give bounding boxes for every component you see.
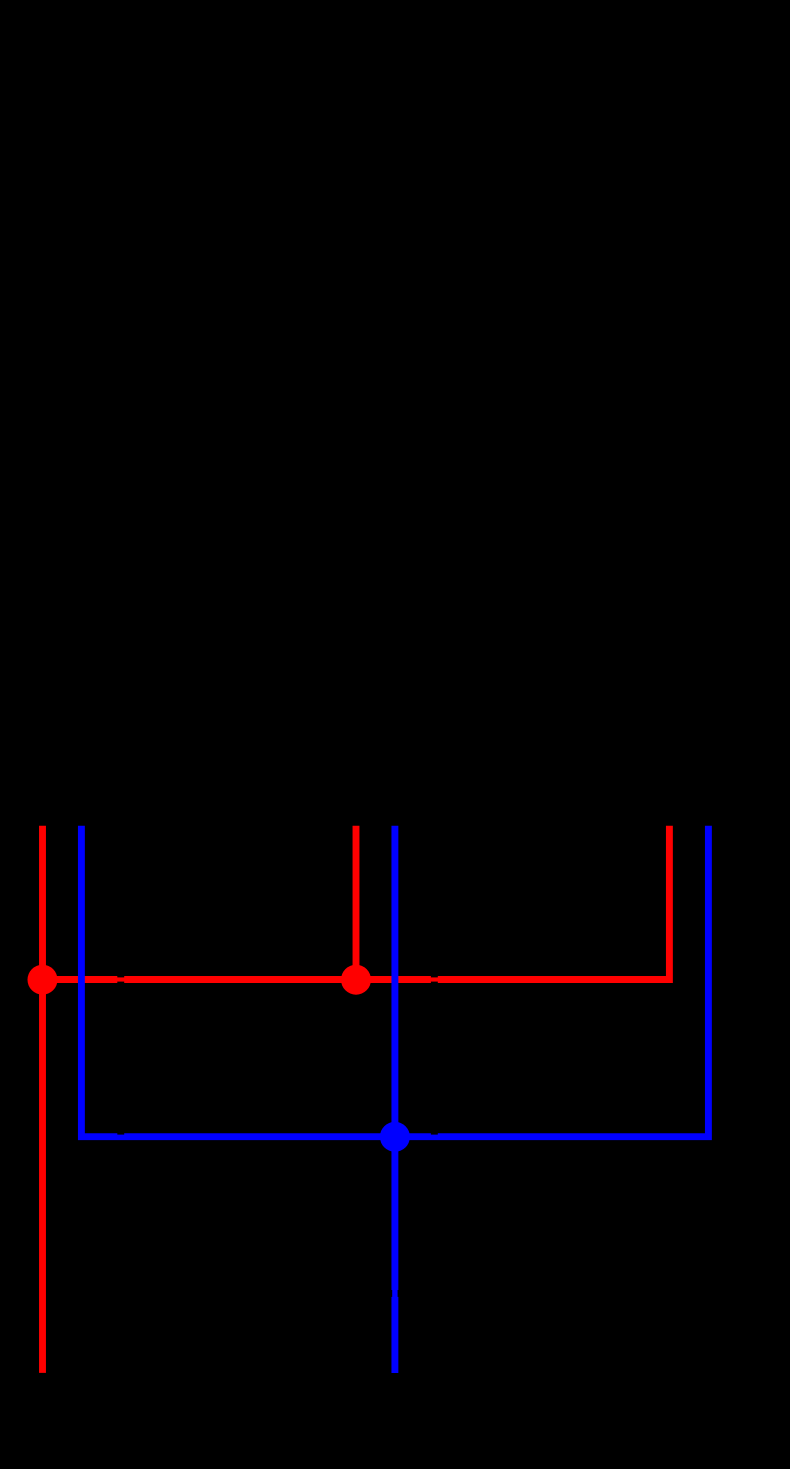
wire black crossover nick on red rail at x=120.8 (top) [117, 975, 124, 977]
wire V+ horizontal rail with stage3 red vertical (corner at x=669.4) [43, 826, 670, 980]
wire red supply drop (x=42.5 down) [39, 980, 46, 1373]
wire black crossover nick on blue drop at y=1293.4 (left) [390, 1290, 392, 1297]
wire ground rail blue: stage1 vertical + horizontal + stage3 vertical [81, 826, 708, 1137]
wire V+ rail red vertical stage2 (x=356) [353, 826, 360, 980]
node red junction dot left [28, 965, 58, 995]
node red junction dot center [341, 965, 371, 995]
node blue junction dot [380, 1122, 410, 1152]
wire V+ rail red vertical stage1 (x=42.5) [39, 826, 46, 980]
wire black ground stub nick on blue rail at x=120.8 [117, 1133, 124, 1135]
wire black crossover nick on red rail at x=120.8 (bottom) [117, 982, 124, 984]
wire blue vertical stage2 full drop (x=394.9) [391, 826, 398, 1373]
wire black crossover nick on red rail at x=434.3 (bottom) [431, 982, 438, 984]
wire black crossover nick on blue drop at y=1293.4 (right) [398, 1290, 400, 1297]
wire black crossover nick on red rail at x=434.3 (top) [431, 975, 438, 977]
wire black ground stub nick on blue rail at x=434.3 [431, 1133, 438, 1135]
